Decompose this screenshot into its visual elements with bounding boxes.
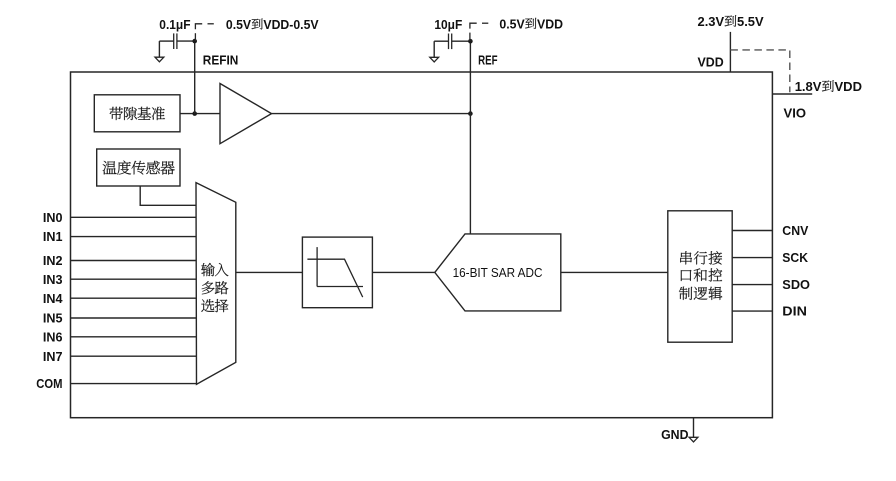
svg-text:IN2: IN2 bbox=[43, 253, 63, 268]
svg-text:IN7: IN7 bbox=[43, 349, 63, 364]
svg-text:10μF: 10μF bbox=[434, 17, 462, 32]
svg-text:VDD-0.5V: VDD-0.5V bbox=[263, 17, 318, 32]
svg-text:IN5: IN5 bbox=[43, 311, 63, 326]
svg-text:5.5V: 5.5V bbox=[737, 14, 764, 29]
svg-text:REFIN: REFIN bbox=[203, 52, 239, 67]
svg-text:VDD: VDD bbox=[537, 16, 563, 31]
svg-text:VIO: VIO bbox=[784, 106, 807, 121]
svg-text:COM: COM bbox=[36, 376, 62, 391]
svg-text:REF: REF bbox=[478, 52, 497, 67]
svg-text:SDO: SDO bbox=[782, 277, 810, 292]
svg-text:VDD: VDD bbox=[835, 79, 863, 94]
svg-text:0.1μF: 0.1μF bbox=[159, 17, 190, 32]
svg-text:CNV: CNV bbox=[782, 223, 808, 238]
svg-text:IN4: IN4 bbox=[43, 291, 63, 306]
svg-text:1.8V: 1.8V bbox=[795, 79, 822, 94]
svg-text:2.3V: 2.3V bbox=[698, 14, 725, 29]
svg-text:VDD: VDD bbox=[698, 55, 724, 70]
svg-text:DIN: DIN bbox=[782, 304, 807, 319]
svg-text:16-BIT SAR ADC: 16-BIT SAR ADC bbox=[453, 265, 543, 280]
svg-text:0.5V: 0.5V bbox=[226, 17, 252, 32]
svg-text:IN6: IN6 bbox=[43, 329, 63, 344]
svg-text:IN3: IN3 bbox=[43, 272, 63, 287]
svg-text:IN1: IN1 bbox=[43, 229, 63, 244]
svg-text:SCK: SCK bbox=[782, 250, 808, 265]
svg-text:0.5V: 0.5V bbox=[499, 16, 525, 31]
svg-text:GND: GND bbox=[661, 427, 688, 442]
svg-text:IN0: IN0 bbox=[43, 210, 63, 225]
